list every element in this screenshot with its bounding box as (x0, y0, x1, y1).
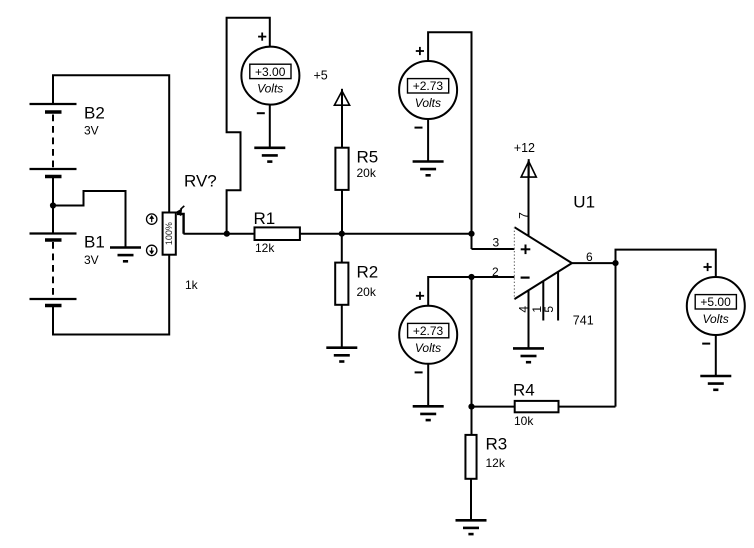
svg-text:3V: 3V (84, 253, 99, 267)
svg-text:R4: R4 (513, 381, 535, 400)
svg-text:3V: 3V (84, 124, 99, 138)
svg-text:741: 741 (573, 313, 594, 327)
svg-text:1k: 1k (185, 278, 199, 292)
svg-text:Volts: Volts (415, 96, 441, 110)
svg-text:R1: R1 (254, 209, 276, 228)
svg-text:12k: 12k (486, 456, 506, 470)
svg-text:4: 4 (517, 306, 531, 313)
svg-text:+2.73: +2.73 (413, 79, 444, 93)
svg-text:+5: +5 (314, 68, 328, 82)
svg-text:10k: 10k (514, 414, 534, 428)
svg-text:B2: B2 (84, 104, 105, 123)
svg-text:+5.00: +5.00 (700, 295, 731, 309)
svg-text:R2: R2 (357, 263, 379, 282)
svg-text:R5: R5 (357, 147, 379, 166)
svg-text:100%: 100% (164, 222, 174, 245)
svg-text:U1: U1 (573, 192, 595, 211)
svg-text:Volts: Volts (415, 341, 441, 355)
svg-text:+3.00: +3.00 (255, 65, 286, 79)
svg-text:B1: B1 (84, 233, 105, 252)
svg-text:3: 3 (493, 235, 500, 249)
svg-text:Volts: Volts (257, 82, 283, 96)
svg-text:RV?: RV? (184, 171, 217, 190)
svg-text:7: 7 (516, 212, 530, 219)
svg-text:+2.73: +2.73 (413, 324, 444, 338)
svg-text:+12: +12 (514, 141, 535, 155)
svg-text:20k: 20k (357, 166, 377, 180)
svg-text:R3: R3 (486, 435, 508, 454)
svg-text:12k: 12k (255, 241, 275, 255)
svg-text:Volts: Volts (702, 312, 728, 326)
svg-text:5: 5 (542, 306, 556, 313)
svg-text:20k: 20k (357, 285, 377, 299)
svg-text:2: 2 (492, 265, 499, 279)
svg-text:6: 6 (586, 250, 593, 264)
